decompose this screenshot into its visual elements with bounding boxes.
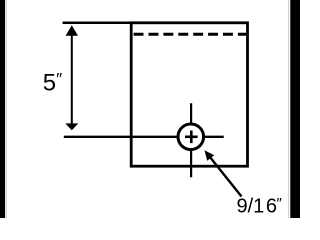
svg-text:9/16″: 9/16″ bbox=[237, 195, 283, 218]
dimension arrowhead up bbox=[66, 25, 78, 36]
right black border bar bbox=[290, 0, 300, 218]
dimension shaft 5in bbox=[71, 29, 73, 127]
top extension line bbox=[63, 22, 132, 25]
dimension arrowhead down bbox=[65, 123, 78, 130]
leader arrowhead bbox=[205, 150, 215, 161]
leader line bbox=[208, 154, 242, 197]
plus mark in hole bbox=[185, 136, 198, 139]
hole vertical centerline bbox=[190, 103, 192, 177]
hole circle bbox=[178, 124, 204, 150]
bottom extension line through hole center bbox=[64, 136, 224, 138]
left black border bar bbox=[0, 0, 5, 218]
dashed fold line bbox=[134, 33, 248, 36]
panel rectangle bbox=[131, 23, 247, 166]
